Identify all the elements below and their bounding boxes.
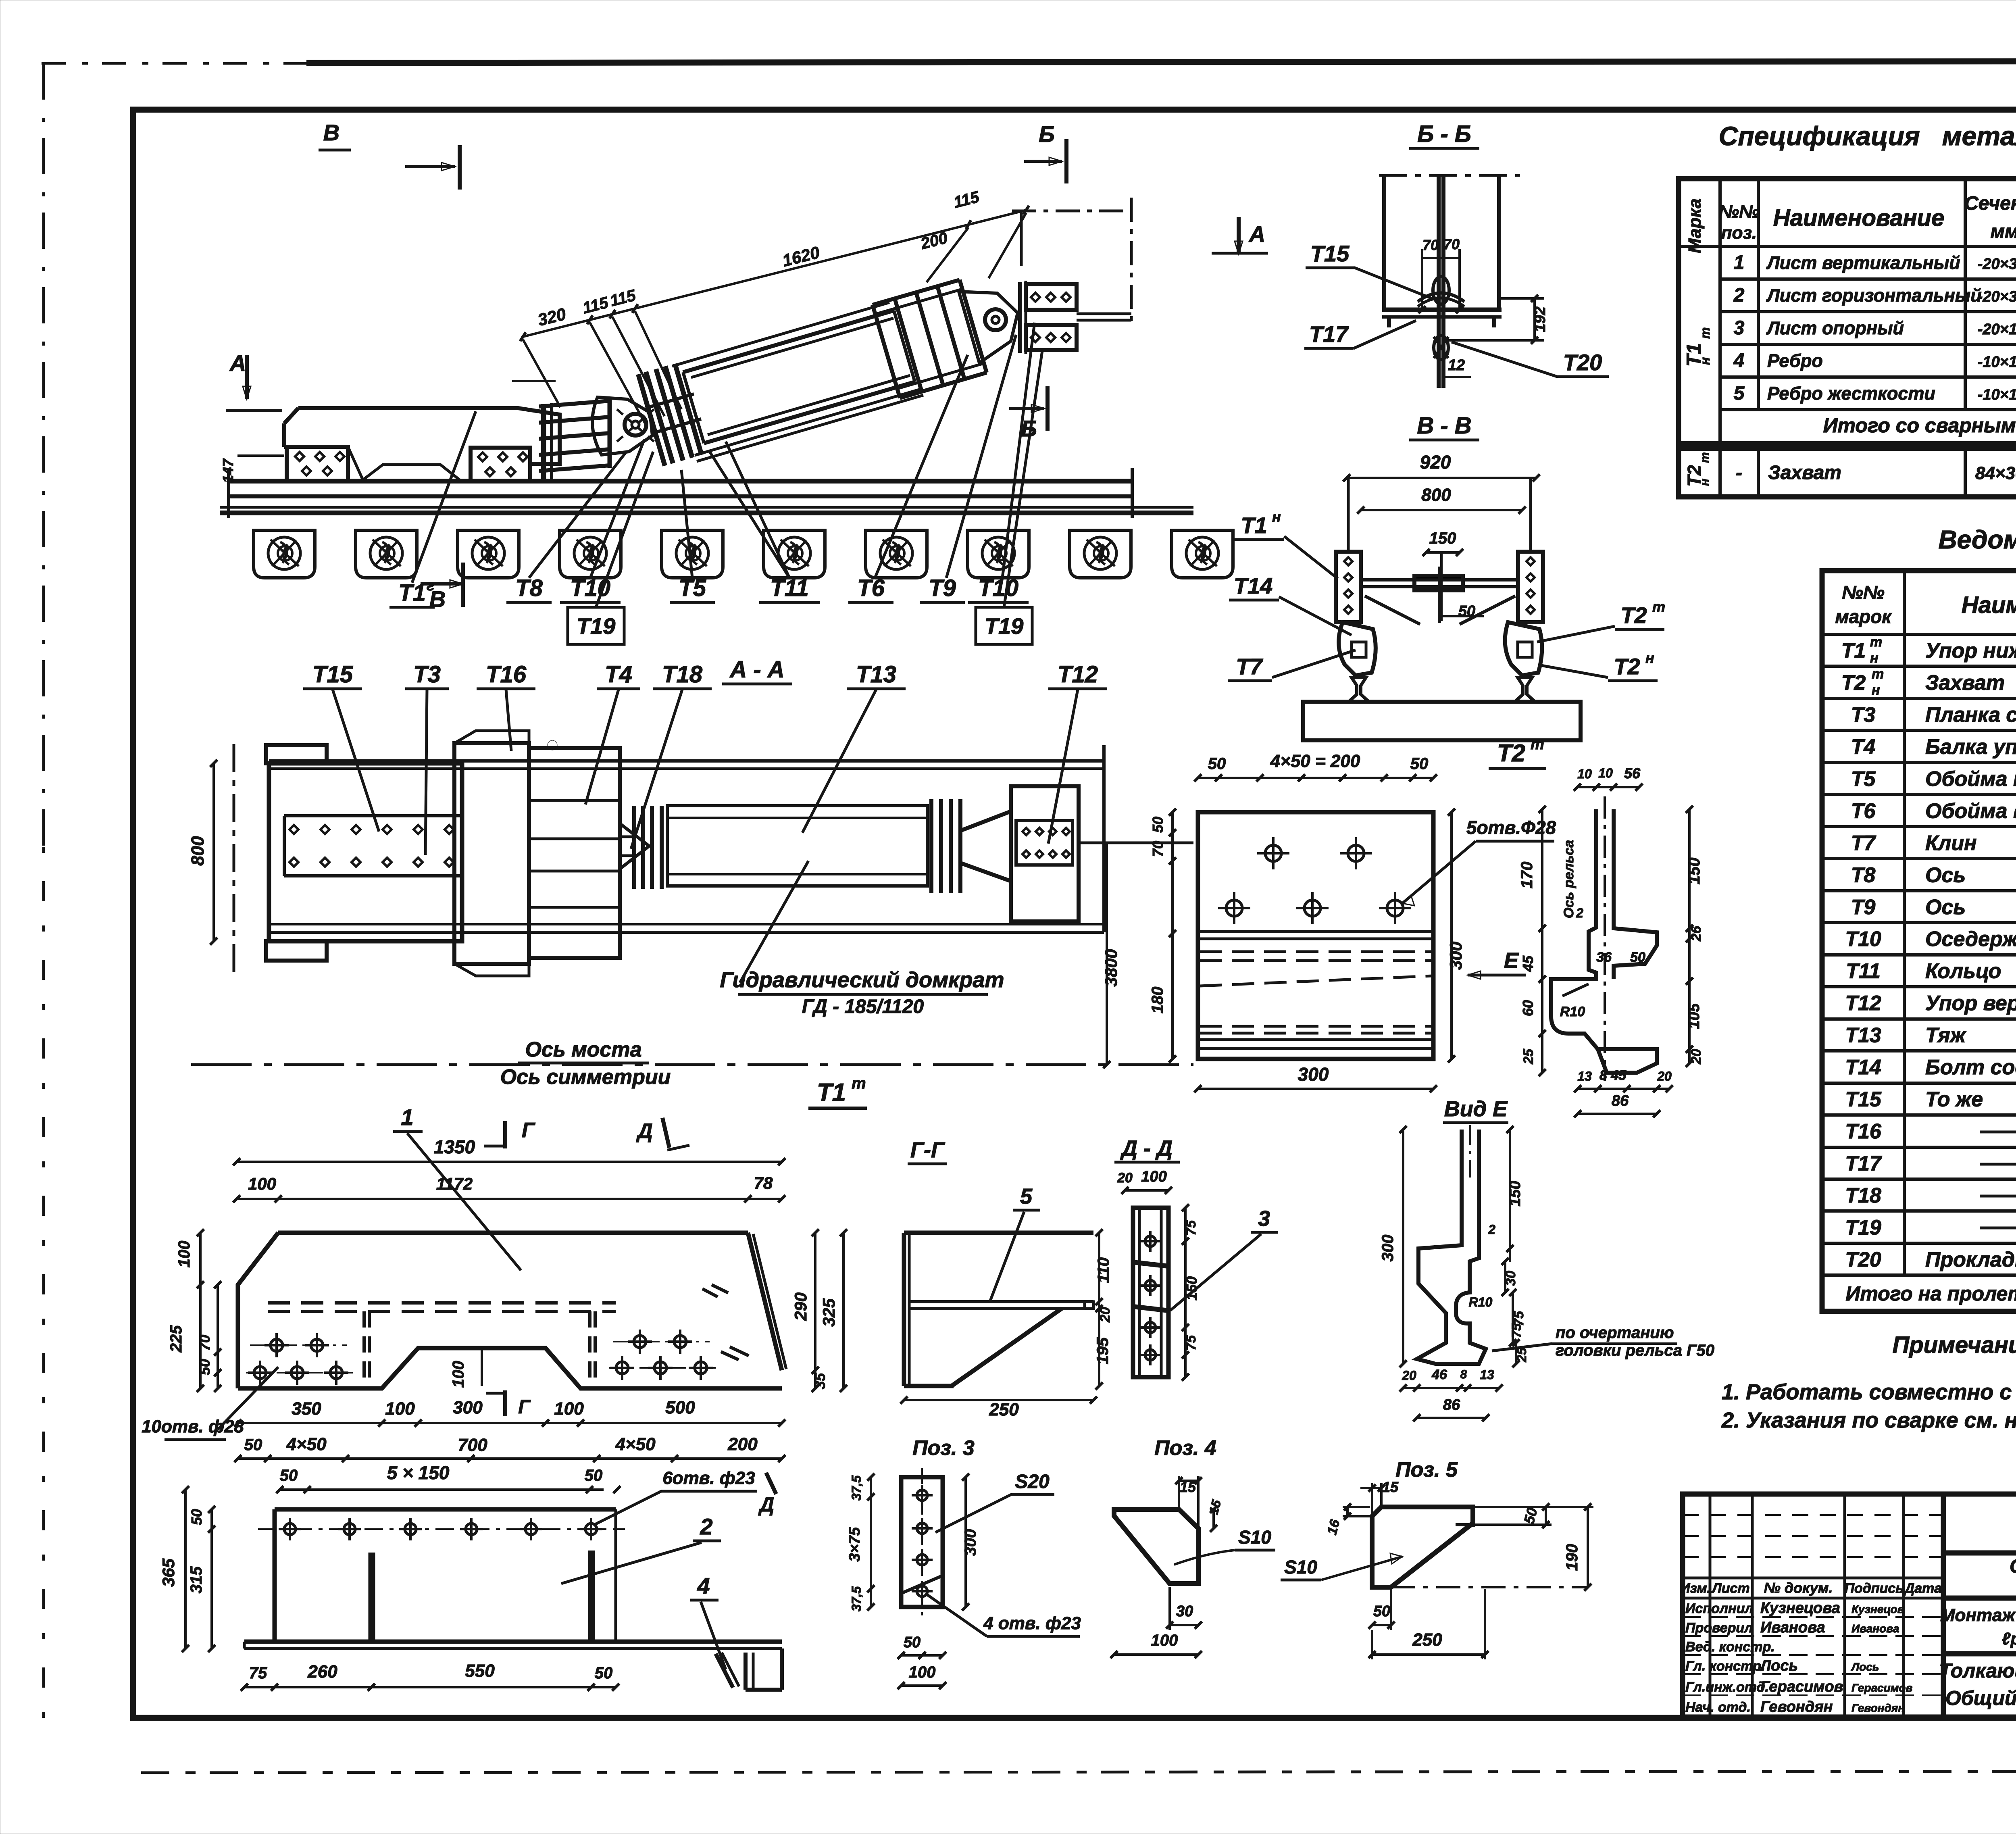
svg-text:20: 20 bbox=[1402, 1368, 1416, 1383]
svg-text:Т8: Т8 bbox=[1851, 863, 1876, 887]
svg-text:Т11: Т11 bbox=[1846, 960, 1881, 983]
Б-Б bolt details bbox=[1433, 277, 1449, 304]
svg-text:56: 56 bbox=[1624, 765, 1641, 782]
svg-text:35: 35 bbox=[812, 1373, 828, 1389]
svg-text:Т14: Т14 bbox=[1845, 1056, 1881, 1079]
bolt holes left group bbox=[271, 1339, 283, 1351]
svg-text:Лист: Лист bbox=[1711, 1581, 1749, 1596]
svg-text:Т20: Т20 bbox=[1845, 1248, 1881, 1271]
plan flange stack left bbox=[634, 806, 662, 889]
svg-text:15: 15 bbox=[1382, 1479, 1399, 1495]
svg-text:25: 25 bbox=[1521, 1048, 1536, 1065]
svg-text:36: 36 bbox=[1596, 950, 1612, 965]
svg-text:Т15: Т15 bbox=[1310, 241, 1350, 266]
Вид Е dims bbox=[1402, 1130, 1404, 1364]
svg-text:Исполнил: Исполнил bbox=[1685, 1601, 1754, 1616]
svg-text:100: 100 bbox=[909, 1663, 936, 1681]
svg-text:Лось: Лось bbox=[1851, 1661, 1879, 1673]
svg-text:Т8: Т8 bbox=[515, 575, 543, 601]
svg-text:Спецификация металла: Спецификация металла bbox=[1719, 121, 2016, 151]
svg-text:70: 70 bbox=[1443, 236, 1460, 252]
svg-text:200: 200 bbox=[918, 229, 949, 253]
svg-text:Т7: Т7 bbox=[1851, 832, 1876, 855]
svg-text:13: 13 bbox=[1480, 1367, 1494, 1382]
svg-text:Д: Д bbox=[636, 1119, 653, 1143]
svg-text:Проверил: Проверил bbox=[1685, 1620, 1753, 1636]
svg-text:-20×325: -20×325 bbox=[1978, 256, 2016, 273]
svg-text:Общий вид. Марки Т1 и Т2.: Общий вид. Марки Т1 и Т2. bbox=[1945, 1687, 2016, 1709]
svg-text:S10: S10 bbox=[1284, 1557, 1317, 1578]
left dims bbox=[184, 1490, 187, 1649]
plan right vertical + dim 3800 bbox=[1102, 745, 1106, 932]
svg-text:Т4: Т4 bbox=[605, 661, 632, 688]
svg-text:Кузнецова: Кузнецова bbox=[1760, 1600, 1840, 1617]
svg-text:Б - Б: Б - Б bbox=[1417, 121, 1471, 147]
lower dim chain 2 bbox=[238, 1457, 782, 1460]
dim 800 left bbox=[212, 763, 215, 941]
svg-text:50: 50 bbox=[1208, 755, 1226, 773]
svg-text:4: 4 bbox=[1733, 350, 1745, 371]
svg-text:В: В bbox=[323, 120, 339, 145]
svg-text:37,5: 37,5 bbox=[849, 1475, 864, 1501]
svg-text:100: 100 bbox=[175, 1241, 193, 1268]
svg-text:№№: №№ bbox=[1719, 202, 1760, 222]
plan: left plate (захват зона) bbox=[269, 763, 462, 941]
svg-text:920: 920 bbox=[1420, 452, 1451, 473]
svg-text:Т10: Т10 bbox=[1845, 927, 1881, 951]
svg-text:26: 26 bbox=[1689, 925, 1704, 942]
svg-text:Т17: Т17 bbox=[1845, 1152, 1882, 1175]
svg-text:1350: 1350 bbox=[434, 1136, 475, 1157]
svg-text:Тяж: Тяж bbox=[1925, 1024, 1967, 1047]
rail clamp profile with dims bbox=[1551, 809, 1657, 1073]
svg-text:В - В: В - В bbox=[1417, 413, 1471, 439]
svg-text:Т12: Т12 bbox=[1058, 661, 1098, 688]
svg-text:180: 180 bbox=[1149, 987, 1166, 1014]
svg-text:75: 75 bbox=[1183, 1335, 1199, 1350]
svg-text:Т5: Т5 bbox=[1851, 767, 1876, 791]
bottom dims bbox=[244, 1686, 616, 1688]
svg-text:Гевондян: Гевондян bbox=[1851, 1702, 1905, 1714]
svg-text:37,5: 37,5 bbox=[849, 1586, 864, 1611]
lower mount strips to carriage bbox=[539, 399, 610, 480]
svg-text:315: 315 bbox=[187, 1566, 205, 1593]
svg-text:30: 30 bbox=[1176, 1603, 1193, 1620]
svg-text:Т3: Т3 bbox=[413, 661, 441, 688]
Вид Е profile bbox=[1417, 1130, 1486, 1364]
Вид Е bottom dims bbox=[1403, 1387, 1499, 1389]
svg-text:10: 10 bbox=[1577, 767, 1592, 781]
upper frame ladder (обойма верхняя T6) bbox=[873, 280, 987, 398]
svg-text:№№: №№ bbox=[1842, 582, 1885, 603]
bottom plate outline bbox=[244, 1509, 782, 1649]
svg-text:Вед. констр.: Вед. констр. bbox=[1685, 1639, 1775, 1655]
S10 bracket small (gusset, mirrored) bbox=[1114, 1509, 1198, 1584]
Г section marker top bbox=[503, 1121, 507, 1148]
svg-text:105: 105 bbox=[1686, 1003, 1703, 1029]
svg-text:т: т bbox=[1870, 634, 1882, 650]
svg-text:50: 50 bbox=[1410, 755, 1429, 773]
svg-text:2: 2 bbox=[1488, 1222, 1495, 1237]
svg-text:ℓр = 63 +2×84 +53м: ℓр = 63 +2×84 +53м bbox=[2002, 1629, 2016, 1648]
svg-text:Изм.: Изм. bbox=[1680, 1581, 1711, 1596]
В-В rails under clamps bbox=[1349, 677, 1535, 702]
svg-text:-20×100: -20×100 bbox=[1978, 321, 2016, 338]
svg-text:3: 3 bbox=[1258, 1207, 1270, 1231]
svg-text:Ребро жесткости: Ребро жесткости bbox=[1767, 383, 1935, 404]
svg-text:Дата: Дата bbox=[1904, 1581, 1942, 1596]
svg-text:Т1: Т1 bbox=[817, 1079, 846, 1107]
svg-text:Подпись: Подпись bbox=[1845, 1581, 1904, 1596]
svg-text:по очертанию: по очертанию bbox=[1556, 1324, 1674, 1342]
left dim chains bbox=[199, 1233, 202, 1388]
svg-text:Итого на пролетное строение:: Итого на пролетное строение: bbox=[1845, 1282, 2016, 1305]
svg-text:Т2: Т2 bbox=[1497, 740, 1525, 767]
svg-text:Г: Г bbox=[522, 1119, 535, 1142]
svg-text:75: 75 bbox=[1509, 1323, 1524, 1338]
svg-text:50: 50 bbox=[1630, 950, 1645, 965]
dims under small bracket bbox=[1170, 1624, 1198, 1626]
svg-text:Ось симметрии: Ось симметрии bbox=[500, 1065, 671, 1089]
svg-text:Т18: Т18 bbox=[662, 661, 703, 688]
svg-text:13: 13 bbox=[1577, 1069, 1592, 1084]
plan tongue between block and flanges bbox=[620, 823, 649, 869]
svg-text:н: н bbox=[1645, 650, 1654, 666]
svg-text:-10×190: -10×190 bbox=[1978, 386, 2016, 403]
svg-text:300: 300 bbox=[1298, 1064, 1329, 1085]
svg-text:Т20: Т20 bbox=[1563, 350, 1602, 375]
svg-text:Наименование: Наименование bbox=[1773, 205, 1944, 231]
svg-text:800: 800 bbox=[188, 836, 208, 866]
svg-text:110: 110 bbox=[1095, 1257, 1112, 1283]
Захват plate plan bbox=[1198, 812, 1433, 1059]
jack left flange pack (обойма нижняя Т5, кольцо Т11) bbox=[638, 364, 702, 466]
svg-text:70: 70 bbox=[1150, 841, 1166, 857]
plan corner clips bbox=[266, 745, 327, 961]
svg-text:Т18: Т18 bbox=[1845, 1184, 1881, 1207]
svg-text:50: 50 bbox=[1150, 817, 1166, 833]
svg-text:Гл.инж.отд.: Гл.инж.отд. bbox=[1685, 1680, 1769, 1695]
svg-text:Т19: Т19 bbox=[985, 613, 1024, 639]
svg-text:3800: 3800 bbox=[1102, 949, 1120, 986]
svg-text:Т1: Т1 bbox=[1841, 639, 1866, 663]
svg-text:150: 150 bbox=[1685, 858, 1703, 885]
svg-text:Т2: Т2 bbox=[1614, 654, 1640, 679]
svg-text:-10×100: -10×100 bbox=[1978, 354, 2016, 371]
svg-text:То же: То же bbox=[1925, 1088, 1983, 1111]
svg-text:Т7: Т7 bbox=[1236, 654, 1263, 679]
svg-text:50: 50 bbox=[904, 1634, 921, 1651]
svg-text:5: 5 bbox=[1020, 1184, 1033, 1209]
svg-text:100: 100 bbox=[450, 1361, 467, 1388]
dashed stiffener verticals bbox=[364, 1311, 595, 1386]
svg-text:А: А bbox=[229, 350, 246, 376]
svg-text:т: т bbox=[1652, 598, 1665, 615]
svg-text:Лось: Лось bbox=[1759, 1657, 1798, 1674]
upper clevis with pin (ось Т9, оседержатель Т10) bbox=[959, 292, 1018, 363]
svg-text:Т16: Т16 bbox=[1845, 1120, 1882, 1143]
carriage body (lower stop T1) bbox=[284, 408, 560, 480]
svg-text:Захват: Захват bbox=[1768, 462, 1841, 484]
sleepers row bbox=[254, 530, 315, 578]
svg-text:8: 8 bbox=[1460, 1368, 1467, 1381]
svg-text:100: 100 bbox=[1151, 1632, 1178, 1649]
Д section marker top bbox=[662, 1118, 669, 1148]
svg-text:70: 70 bbox=[1422, 237, 1439, 253]
svg-text:Т1: Т1 bbox=[1241, 513, 1267, 538]
svg-text:Прокладка: Прокладка bbox=[1925, 1248, 2016, 1271]
svg-text:Герасимов: Герасимов bbox=[1760, 1678, 1843, 1695]
plan right bracket (Т12) bbox=[960, 786, 1079, 921]
svg-text:Т9: Т9 bbox=[1851, 896, 1876, 919]
svg-text:170: 170 bbox=[1518, 862, 1536, 889]
svg-text:50: 50 bbox=[595, 1664, 613, 1682]
svg-text:260: 260 bbox=[307, 1662, 337, 1682]
svg-text:т: т bbox=[1872, 666, 1884, 681]
svg-text:Кольцо: Кольцо bbox=[1925, 960, 2001, 983]
svg-text:6отв. ф23: 6отв. ф23 bbox=[662, 1468, 755, 1488]
svg-text:марок: марок bbox=[1835, 606, 1892, 627]
svg-text:Т3: Т3 bbox=[1851, 703, 1876, 727]
svg-text:78: 78 bbox=[754, 1173, 773, 1192]
svg-text:1620: 1620 bbox=[780, 243, 821, 270]
svg-text:Обойма нижняя: Обойма нижняя bbox=[1925, 767, 2016, 791]
svg-text:150: 150 bbox=[1507, 1181, 1524, 1206]
svg-text:45: 45 bbox=[1520, 955, 1536, 972]
svg-text:Захват: Захват bbox=[1925, 671, 2005, 694]
svg-text:Т1: Т1 bbox=[398, 580, 426, 606]
svg-text:2: 2 bbox=[1733, 285, 1745, 306]
right dims bbox=[1688, 809, 1691, 1063]
svg-text:-20×365: -20×365 bbox=[1978, 288, 2016, 305]
svg-text:20: 20 bbox=[1689, 1049, 1704, 1065]
svg-text:R10: R10 bbox=[1469, 1295, 1493, 1309]
svg-text:10: 10 bbox=[1598, 766, 1613, 780]
svg-text:Планка соединительная: Планка соединительная bbox=[1925, 703, 2016, 727]
svg-text:Поз. 4: Поз. 4 bbox=[1154, 1436, 1216, 1460]
svg-text:20: 20 bbox=[1098, 1307, 1113, 1323]
svg-text:Поз. 3: Поз. 3 bbox=[912, 1436, 975, 1460]
svg-text:Т6: Т6 bbox=[1851, 799, 1876, 823]
svg-text:Гл. констр.: Гл. констр. bbox=[1685, 1659, 1765, 1674]
S10 bracket big (поз.5) bbox=[1372, 1507, 1473, 1587]
svg-text:Иванова: Иванова bbox=[1851, 1622, 1899, 1635]
bottom plate view: top dim 5x150 bbox=[280, 1488, 604, 1491]
svg-text:Монтаж пролетных строений: Монтаж пролетных строений bbox=[1940, 1605, 2016, 1625]
svg-text:-: - bbox=[1736, 462, 1742, 484]
svg-text:50: 50 bbox=[1520, 1506, 1541, 1526]
svg-text:Сталежелезобетонные пролетные: Сталежелезобетонные пролетные bbox=[2010, 1556, 2016, 1577]
Д-Д dims bbox=[1125, 1189, 1168, 1192]
В-В hanger plates bbox=[1336, 478, 1543, 622]
svg-text:3×75: 3×75 bbox=[846, 1527, 863, 1561]
svg-text:50: 50 bbox=[244, 1436, 262, 1454]
svg-text:S20: S20 bbox=[1015, 1471, 1050, 1492]
left dims bbox=[1541, 809, 1543, 1073]
dim extension lines bbox=[512, 213, 1026, 423]
В-В beam and center bbox=[1361, 567, 1518, 624]
svg-text:Т9: Т9 bbox=[929, 575, 956, 601]
stiffener bars bbox=[372, 1551, 591, 1642]
svg-text:147: 147 bbox=[220, 458, 236, 483]
svg-text:325: 325 bbox=[819, 1298, 838, 1327]
svg-text:т: т bbox=[852, 1075, 866, 1092]
svg-text:3: 3 bbox=[1734, 317, 1745, 339]
svg-text:т: т bbox=[1698, 452, 1712, 463]
svg-text:н: н bbox=[1872, 682, 1880, 698]
svg-text:Т5: Т5 bbox=[679, 575, 706, 601]
svg-text:Б: Б bbox=[1039, 121, 1055, 147]
small plate поз.5 S20 bbox=[901, 1477, 943, 1607]
svg-text:4×50: 4×50 bbox=[615, 1434, 656, 1454]
svg-text:Т11: Т11 bbox=[770, 575, 809, 601]
svg-text:Гевондян: Гевондян bbox=[1760, 1699, 1833, 1715]
svg-text:Наименование: Наименование bbox=[1962, 592, 2016, 618]
right dim chains bbox=[814, 1233, 816, 1388]
svg-text:мм: мм bbox=[1990, 221, 2016, 242]
svg-text:225: 225 bbox=[167, 1325, 185, 1353]
Г-Г dims bbox=[1098, 1233, 1100, 1386]
svg-text:12: 12 bbox=[1448, 357, 1465, 374]
svg-text:Вид Е: Вид Е bbox=[1444, 1097, 1508, 1121]
lower dim chain 1 bbox=[238, 1422, 782, 1424]
svg-text:Клин: Клин bbox=[1925, 832, 1977, 855]
svg-text:4×50 = 200: 4×50 = 200 bbox=[1270, 751, 1360, 771]
svg-text:20: 20 bbox=[1117, 1170, 1133, 1186]
svg-text:Лист горизонтальный: Лист горизонтальный bbox=[1766, 285, 1982, 306]
svg-text:Толкающие обустройства.: Толкающие обустройства. bbox=[1939, 1659, 2016, 1682]
svg-text:№ докум.: № докум. bbox=[1764, 1580, 1833, 1596]
svg-text:Герасимов: Герасимов bbox=[1851, 1682, 1913, 1694]
svg-text:86: 86 bbox=[1612, 1092, 1629, 1109]
svg-text:250: 250 bbox=[1412, 1630, 1442, 1650]
svg-text:S10: S10 bbox=[1238, 1527, 1271, 1548]
svg-text:192: 192 bbox=[1532, 306, 1549, 332]
svg-text:300: 300 bbox=[453, 1398, 483, 1417]
svg-text:1: 1 bbox=[401, 1105, 413, 1130]
svg-text:Ось моста: Ось моста bbox=[525, 1038, 642, 1061]
tie rods (тяж Т13) under cylinder bbox=[695, 390, 919, 455]
svg-text:50: 50 bbox=[188, 1509, 205, 1525]
svg-text:195: 195 bbox=[1094, 1337, 1112, 1364]
svg-text:т: т bbox=[1698, 327, 1712, 339]
svg-text:300: 300 bbox=[1446, 942, 1465, 970]
svg-text:365: 365 bbox=[159, 1558, 178, 1587]
svg-text:300: 300 bbox=[1379, 1235, 1397, 1262]
right end bracket bbox=[716, 1649, 782, 1690]
svg-text:86: 86 bbox=[1443, 1396, 1460, 1413]
svg-text:т: т bbox=[1531, 736, 1544, 753]
diagonal dimension line over jack (320/115/115/1620/200) bbox=[521, 210, 1026, 337]
svg-text:А - А: А - А bbox=[729, 656, 784, 683]
Б-Б dims bbox=[1421, 249, 1423, 310]
Г marker bottom flag bbox=[503, 1390, 507, 1416]
svg-text:75: 75 bbox=[1183, 1220, 1199, 1236]
svg-text:250: 250 bbox=[989, 1400, 1019, 1419]
wall centerlines bbox=[1012, 210, 1131, 213]
svg-text:Болт соединительный: Болт соединительный bbox=[1925, 1056, 2016, 1079]
svg-text:84×300: 84×300 bbox=[1975, 463, 2016, 483]
svg-text:н: н bbox=[1698, 357, 1712, 365]
svg-text:Г-Г: Г-Г bbox=[910, 1138, 946, 1162]
svg-text:115: 115 bbox=[581, 294, 610, 317]
svg-text:2. Указания по сварке см. н: 2. Указания по сварке см. на листе 40. bbox=[1721, 1408, 2016, 1432]
carriage plate 1 with bolts bbox=[287, 447, 348, 481]
svg-text:Д: Д bbox=[758, 1493, 774, 1516]
dims 100/1172/78 bbox=[237, 1198, 782, 1200]
svg-text:Т12: Т12 bbox=[1845, 992, 1881, 1015]
hidden plate dashed band bbox=[268, 1301, 616, 1305]
svg-text:н: н bbox=[1870, 650, 1879, 666]
Б-Б structure bbox=[1379, 174, 1520, 177]
svg-text:R10: R10 bbox=[1560, 1004, 1585, 1019]
centerlines through holes bbox=[250, 1344, 347, 1346]
dims for S20 plate bbox=[870, 1477, 872, 1607]
svg-text:1. Работать совместно с лис: 1. Работать совместно с листами 39; 40. bbox=[1722, 1380, 2016, 1404]
plan flange stack right bbox=[931, 799, 960, 893]
hole row + axis bbox=[258, 1528, 625, 1530]
svg-text:Балка упорная: Балка упорная bbox=[1925, 735, 2016, 759]
svg-text:Д - Д: Д - Д bbox=[1120, 1136, 1173, 1161]
top dims bbox=[1577, 786, 1639, 788]
hydraulic jack cylinder (diagonal) bbox=[683, 311, 894, 372]
boxed labels T19 under T10 bbox=[568, 607, 624, 644]
svg-text:1: 1 bbox=[1734, 252, 1745, 273]
svg-text:115: 115 bbox=[952, 188, 981, 211]
plan cylinder bbox=[667, 806, 927, 886]
svg-text:20: 20 bbox=[1657, 1069, 1672, 1084]
svg-text:Е: Е bbox=[1504, 948, 1519, 973]
svg-text:Т15: Т15 bbox=[312, 661, 353, 688]
svg-text:г: г bbox=[427, 577, 434, 594]
svg-text:Т13: Т13 bbox=[856, 661, 896, 688]
svg-text:30: 30 bbox=[1503, 1271, 1518, 1286]
svg-text:Поз. 5: Поз. 5 bbox=[1395, 1458, 1458, 1482]
svg-text:50: 50 bbox=[196, 1359, 213, 1375]
svg-text:150: 150 bbox=[1429, 529, 1456, 547]
svg-text:ГД - 185/1120: ГД - 185/1120 bbox=[802, 996, 924, 1017]
svg-text:Т10: Т10 bbox=[978, 575, 1018, 601]
В-В clamp hooks bbox=[1339, 622, 1542, 675]
svg-text:Т19: Т19 bbox=[577, 613, 616, 639]
svg-text:Ребро: Ребро bbox=[1767, 350, 1823, 371]
svg-text:Нач. отд.: Нач. отд. bbox=[1685, 1700, 1751, 1715]
elevation view: rail line bbox=[220, 468, 1193, 518]
svg-text:190: 190 bbox=[1563, 1544, 1581, 1571]
svg-text:46: 46 bbox=[1431, 1367, 1447, 1382]
В-В base beam bbox=[1303, 702, 1581, 740]
svg-text:50: 50 bbox=[1373, 1603, 1390, 1620]
svg-text:Обойма верхняя: Обойма верхняя bbox=[1925, 799, 2016, 823]
svg-text:350: 350 bbox=[292, 1399, 321, 1419]
Д marker flag bbox=[766, 1473, 776, 1494]
svg-text:2: 2 bbox=[700, 1514, 712, 1539]
T11 second leader bbox=[710, 452, 789, 578]
svg-text:5 × 150: 5 × 150 bbox=[387, 1462, 450, 1483]
bottom dims bbox=[1578, 1088, 1669, 1090]
svg-text:Иванова: Иванова bbox=[1760, 1619, 1825, 1636]
svg-text:Упор нижний: Упор нижний bbox=[1925, 639, 2016, 663]
svg-text:Ось: Ось bbox=[1925, 896, 1966, 919]
svg-text:Итого со сварными швами:: Итого со сварными швами: bbox=[1823, 414, 2016, 437]
svg-text:Т13: Т13 bbox=[1845, 1024, 1881, 1047]
svg-text:115: 115 bbox=[608, 286, 638, 310]
svg-text:4 отв. ф23: 4 отв. ф23 bbox=[983, 1613, 1081, 1633]
svg-text:Т14: Т14 bbox=[1234, 573, 1273, 598]
svg-text:А: А bbox=[1248, 221, 1265, 247]
svg-text:550: 550 bbox=[465, 1661, 495, 1681]
svg-text:100: 100 bbox=[554, 1399, 584, 1419]
